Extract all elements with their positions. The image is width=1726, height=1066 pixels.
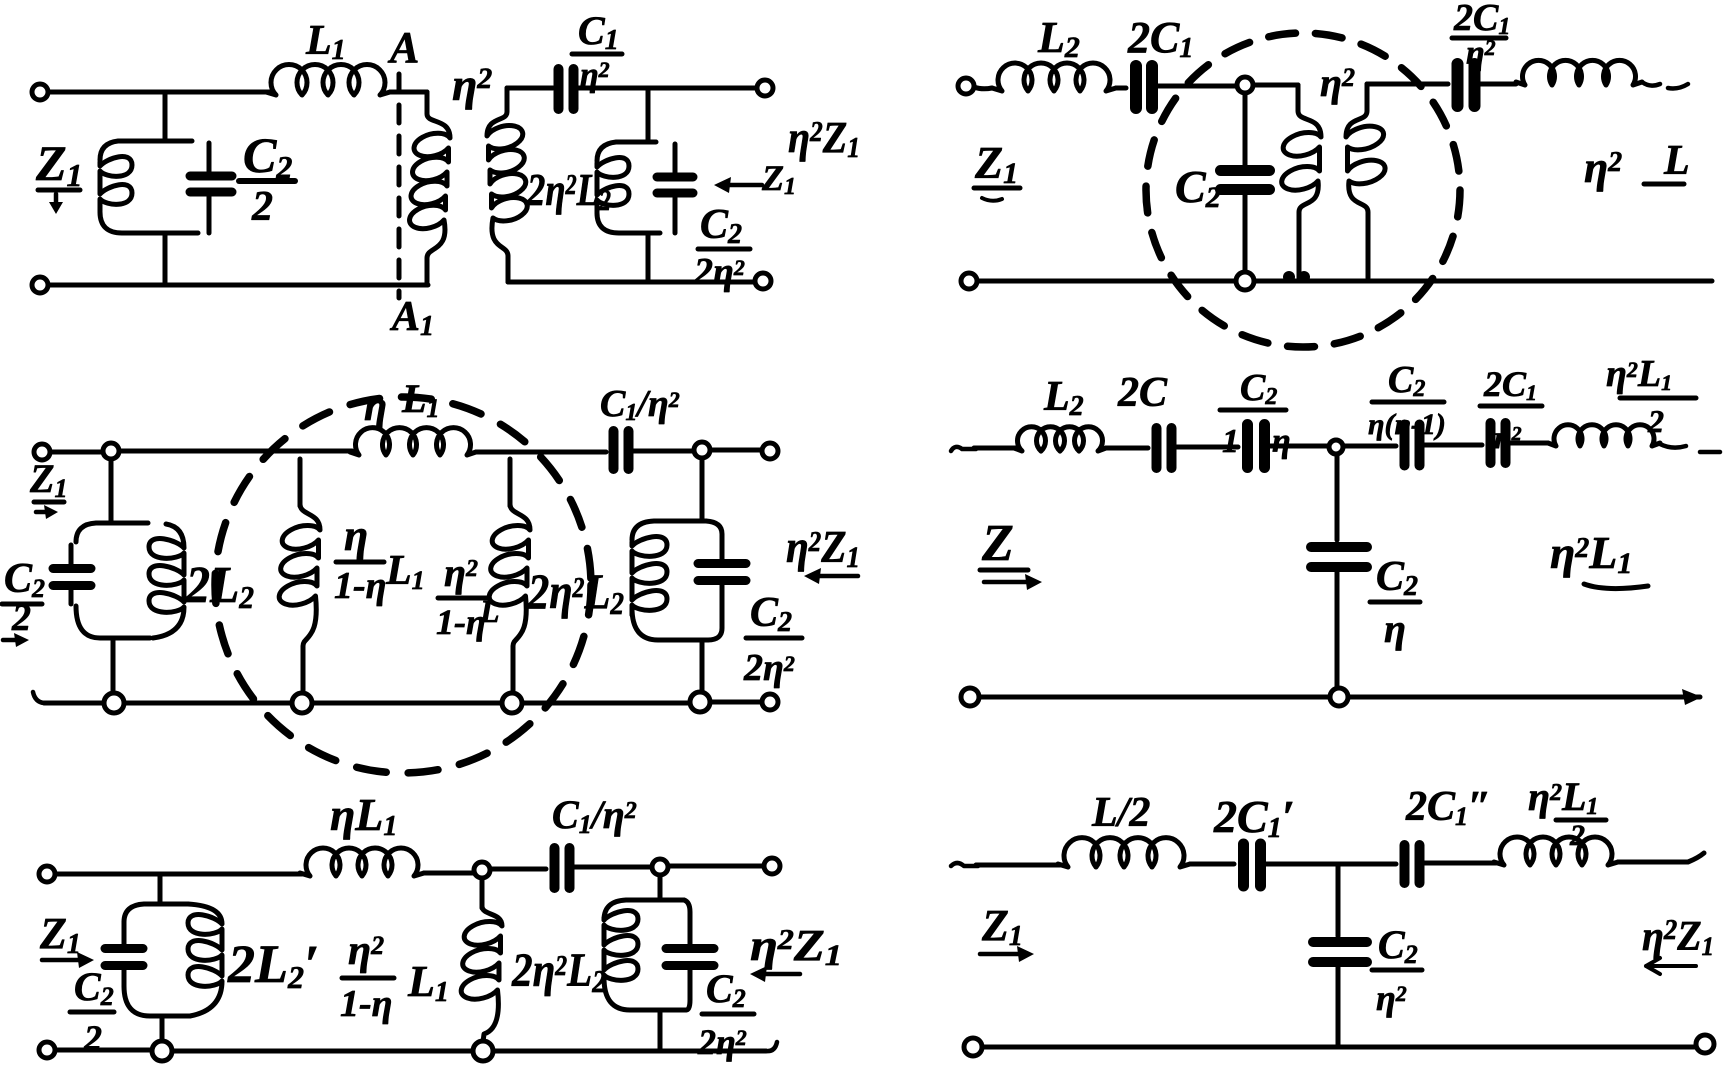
svg-text:η2: η2 xyxy=(348,928,384,974)
wire c1 cap2 branch top xyxy=(673,144,678,174)
wire c3 cap branch bottom xyxy=(708,584,722,640)
wire c4 L2 to 2C xyxy=(1106,446,1148,451)
svg-text:L/2: L/2 xyxy=(1091,790,1150,836)
wire c4 cap4 to coil xyxy=(1506,441,1548,446)
capacitor C2/2eta2 plates c3 xyxy=(698,564,746,581)
capacitor 2C1' series c6 xyxy=(1244,844,1261,886)
terminal c2 bottom left xyxy=(961,273,977,289)
wire c3 shunt stem L xyxy=(109,459,114,523)
wire c1 L1 to A xyxy=(390,90,427,95)
svg-text:L2: L2 xyxy=(1037,13,1080,64)
wire c1 bottom rail xyxy=(48,283,428,288)
svg-text:η2L1: η2L1 xyxy=(1528,774,1598,820)
parallel box c3-left outline xyxy=(76,523,150,638)
terminal c3 input top xyxy=(34,444,50,460)
svg-text:η2: η2 xyxy=(452,59,492,110)
wire c3 shunt stem R bottom xyxy=(700,640,705,694)
terminal c5 input bottom xyxy=(39,1042,55,1058)
node c3 input xyxy=(103,443,119,459)
wire c1 bottom rail secondary xyxy=(508,280,755,285)
wire c1 cap to out xyxy=(574,86,757,91)
parallel box c5-right outline xyxy=(604,900,686,1010)
capacitor C2/(1-eta) series c4 xyxy=(1248,425,1265,468)
svg-text:2η2L2: 2η2L2 xyxy=(526,164,611,217)
svg-text:C1/η2: C1/η2 xyxy=(600,383,680,426)
terminal c1 input top xyxy=(32,84,48,100)
wire c2 output hook xyxy=(1642,82,1688,89)
wire c5 coil to node xyxy=(424,871,474,876)
svg-text:C2: C2 xyxy=(74,964,114,1011)
svg-text:η2L1: η2L1 xyxy=(1550,527,1632,580)
wire c1 secondary top xyxy=(507,86,553,91)
svg-text:2: 2 xyxy=(1647,403,1664,439)
wire c5 shunt stem L xyxy=(158,874,163,904)
svg-text:C2: C2 xyxy=(706,966,746,1013)
svg-text:C2: C2 xyxy=(1388,359,1425,402)
svg-text:2η2L2: 2η2L2 xyxy=(527,563,624,621)
terminal c5 output top xyxy=(764,858,780,874)
wire c5 top rail left xyxy=(55,872,302,877)
wire c2 cap to coil xyxy=(1476,82,1516,87)
capacitor 2C series c4 xyxy=(1157,428,1172,468)
svg-text:C2: C2 xyxy=(243,127,292,185)
wire c6 cap2 to coil xyxy=(1420,861,1496,866)
svg-text:2C1: 2C1 xyxy=(1483,364,1537,405)
svg-text:1-η: 1-η xyxy=(436,602,486,642)
svg-text:2η2L2: 2η2L2 xyxy=(511,944,606,999)
wire c3 input xyxy=(50,450,103,455)
wire c4 shunt stem top xyxy=(1335,454,1340,540)
svg-text:Z1: Z1 xyxy=(974,137,1018,190)
svg-text:L: L xyxy=(1663,138,1690,184)
wire c1 shunt2 stem top xyxy=(646,88,651,142)
svg-text:2η2: 2η2 xyxy=(743,647,795,689)
node c3 bottom 1 xyxy=(104,693,124,713)
capacitor 2C1/eta2 series c4 xyxy=(1491,423,1506,463)
svg-text:η: η xyxy=(344,511,368,560)
wire c2 cap to node xyxy=(1154,84,1237,89)
svg-text:A: A xyxy=(387,23,419,72)
terminal c4 bottom left xyxy=(961,688,979,706)
inductor eta2/(1-eta)L1 c3 xyxy=(489,504,530,694)
svg-text:η2: η2 xyxy=(1466,35,1496,72)
wire c4 node to cap3 xyxy=(1343,444,1396,449)
inductor etaL1 c5 xyxy=(300,848,424,876)
svg-text:2: 2 xyxy=(251,184,273,230)
inductor 2L2 c3box xyxy=(149,524,184,638)
node c3 bottom right xyxy=(690,692,710,712)
wire c4 input hook xyxy=(951,447,976,451)
svg-text:1-η: 1-η xyxy=(340,983,393,1025)
svg-text:η2: η2 xyxy=(1376,978,1407,1018)
transformer c1 secondary xyxy=(487,88,527,282)
wire c2 shunt stem bottom xyxy=(1243,192,1248,273)
svg-text:η2: η2 xyxy=(1494,419,1522,455)
wire c6 input xyxy=(976,863,1060,868)
junction dot c2 b xyxy=(1298,271,1310,283)
svg-text:L1: L1 xyxy=(407,957,449,1008)
wire c2 node to transformer xyxy=(1253,83,1298,88)
dashed circle c2 xyxy=(1146,33,1460,347)
parallel box c5-left outline xyxy=(124,904,190,1016)
svg-text:A1: A1 xyxy=(389,294,434,342)
svg-text:1: 1 xyxy=(1222,423,1239,460)
svg-text:η: η xyxy=(364,384,387,430)
wire c2 bottom rail xyxy=(977,279,1712,284)
svg-text:L1: L1 xyxy=(401,376,439,423)
wire c5 bottom right hook xyxy=(766,1042,777,1051)
svg-text:2C1: 2C1 xyxy=(1127,13,1193,64)
parallel box c1-left outline xyxy=(100,141,198,233)
inductor L2 c2 xyxy=(992,63,1116,91)
node c5 bottom 1 xyxy=(152,1041,172,1061)
node c2 top xyxy=(1237,77,1253,93)
svg-text:2: 2 xyxy=(1569,819,1585,852)
wire c3 shunt coil2 stem xyxy=(508,459,513,506)
svg-text:2L2: 2L2 xyxy=(185,557,254,615)
svg-text:2: 2 xyxy=(11,597,31,639)
parallel box c1-right outline xyxy=(597,142,660,233)
wire c2 L2 to cap xyxy=(1116,86,1126,91)
svg-text:2C: 2C xyxy=(1117,370,1168,416)
svg-text:2L2′: 2L2′ xyxy=(227,934,319,995)
svg-text:2C1″: 2C1″ xyxy=(1405,784,1491,831)
wire c6 shunt stem top xyxy=(1336,865,1341,936)
capacitor C2/2eta2 plates xyxy=(657,177,693,193)
capacitor L2/eta(eta-1) series c4 xyxy=(1405,425,1420,466)
wire c1 cap2 branch bottom xyxy=(673,196,678,233)
node c4 bottom xyxy=(1330,688,1348,706)
svg-text:L: L xyxy=(479,593,500,629)
terminal c1 output bottom xyxy=(755,273,771,289)
svg-text:C2: C2 xyxy=(1240,367,1277,410)
wire c5 shunt stem L bottom xyxy=(160,1016,165,1041)
wire c5 bottom rail xyxy=(55,1050,766,1051)
capacitor C2/2 plates c5box xyxy=(105,949,143,966)
svg-text:L2: L2 xyxy=(1043,374,1084,422)
svg-text:η2: η2 xyxy=(1320,60,1355,105)
node c3 shunt1 bottom xyxy=(292,693,312,713)
svg-text:Z1: Z1 xyxy=(29,456,67,503)
wire c3 coil to cap xyxy=(476,450,606,455)
wire c3 bottom rail xyxy=(44,702,762,703)
svg-text:η2: η2 xyxy=(444,550,478,595)
wire c5 shunt coil stem xyxy=(480,878,485,908)
inductor eta2L1/2 c6 xyxy=(1494,837,1618,865)
node c5 right top xyxy=(652,859,668,875)
wire c1 shunt stem top xyxy=(163,92,168,141)
inductor eta/(1-eta)L1 c3 xyxy=(279,504,320,694)
wire c6 coil to cap xyxy=(1190,862,1234,867)
wire c5 node2 to terminal xyxy=(668,864,764,869)
wire c5 cap branch top xyxy=(684,900,690,946)
svg-text:η2Z1: η2Z1 xyxy=(1642,914,1714,961)
terminal c1 input bottom xyxy=(32,277,48,293)
wire c3 cap branch top xyxy=(706,521,722,560)
wire c5 shunt stem R bottom xyxy=(658,1010,663,1050)
svg-text:η2Z1: η2Z1 xyxy=(788,113,860,164)
svg-text:C2: C2 xyxy=(1175,161,1221,214)
wire c6 bottom rail xyxy=(982,1045,1696,1050)
svg-text:η2L1: η2L1 xyxy=(1606,353,1672,395)
svg-text:C2: C2 xyxy=(1378,922,1418,969)
wire c4 input xyxy=(974,446,1016,451)
svg-text:C1/η2: C1/η2 xyxy=(552,792,637,839)
node A dashed line xyxy=(397,74,402,298)
transformer c2 right winding xyxy=(1346,84,1385,278)
wire c3 bottom left hook xyxy=(33,692,44,703)
parallel box c3-right outline xyxy=(632,521,708,640)
svg-text:2C1′: 2C1′ xyxy=(1213,791,1295,844)
capacitor C2/2 plates xyxy=(190,176,232,192)
wire c1 shunt stem bottom xyxy=(163,233,168,285)
inductor 2eta2L2 c3box xyxy=(632,537,667,615)
terminal c3 output top xyxy=(762,443,778,459)
svg-text:η: η xyxy=(1272,423,1291,460)
svg-text:2η2: 2η2 xyxy=(697,1022,747,1062)
inductor (c1 left box, 2 loops) xyxy=(100,157,132,211)
wire c2 input xyxy=(974,87,992,89)
terminal c2 input xyxy=(958,78,974,94)
inductor L2 c4 xyxy=(1014,427,1106,451)
svg-text:C2: C2 xyxy=(1376,554,1418,602)
terminal c1 output top xyxy=(757,80,773,96)
inductor 2eta2L2 shunt c5 xyxy=(461,906,502,1042)
wire c6 output xyxy=(1618,853,1704,862)
inductor L/2 c6 xyxy=(1058,838,1190,867)
svg-text:2η2: 2η2 xyxy=(693,251,745,293)
wire c5 cap branch bottom xyxy=(686,968,690,1010)
svg-text:Z1: Z1 xyxy=(981,901,1023,952)
wire c6 shunt stem bottom xyxy=(1336,964,1341,1047)
wire c4 bottom rail xyxy=(979,695,1700,700)
svg-text:Z1: Z1 xyxy=(761,158,796,200)
svg-text:L1: L1 xyxy=(385,548,425,595)
capacitor C1/eta2 series xyxy=(559,69,574,109)
svg-text:Z1: Z1 xyxy=(35,135,83,193)
svg-text:η2: η2 xyxy=(1584,143,1622,192)
svg-text:C2: C2 xyxy=(700,202,742,250)
wire c1 cap branch top xyxy=(207,143,212,173)
capacitor C2/eta2 shunt plates c6 xyxy=(1313,942,1367,962)
wire c5 cap to node2 xyxy=(570,865,652,870)
capacitor C2/2eta2 plates c5 xyxy=(666,949,714,966)
wire c1 top rail xyxy=(48,90,270,95)
terminal c5 input top xyxy=(39,866,55,882)
capacitor 2C1 series c2 xyxy=(1136,66,1152,108)
dashed circle c3 xyxy=(215,397,591,773)
capacitor C1/eta2 series c5 xyxy=(555,848,570,888)
wire c4 shunt stem bottom xyxy=(1335,570,1340,690)
inductor (c1 right box, 2 loops) xyxy=(597,158,629,212)
wire c3 shunt stem R xyxy=(700,458,705,521)
wire c4 output dash xyxy=(1660,444,1720,452)
wire c2 shunt stem top xyxy=(1243,93,1248,166)
node c5 mid top xyxy=(474,862,490,878)
svg-text:η(η-1): η(η-1) xyxy=(1368,408,1446,441)
node c4 T xyxy=(1329,440,1343,454)
svg-text:C2: C2 xyxy=(4,556,45,603)
wire c6 cap to T xyxy=(1262,862,1396,867)
svg-text:C2: C2 xyxy=(750,590,792,638)
wire c2 transformer to cap xyxy=(1367,82,1448,87)
svg-text:η: η xyxy=(1384,606,1406,651)
wire c4 bottom right arrow xyxy=(1682,689,1702,705)
transformer c2 left winding xyxy=(1282,85,1321,278)
wire c5 node to cap xyxy=(490,867,546,872)
svg-text:C1: C1 xyxy=(578,8,619,56)
wire c5 shunt stem R xyxy=(658,875,663,900)
wire c4 2C to cap2 xyxy=(1172,445,1238,450)
node c3 shunt2 bottom xyxy=(502,693,522,713)
node c5 bottom mid xyxy=(473,1041,493,1061)
inductor L1 xyxy=(266,65,390,95)
wire c4 cap to node xyxy=(1266,444,1328,449)
svg-text:Z: Z xyxy=(981,515,1014,572)
capacitor 2C1'' series c6 xyxy=(1405,845,1420,883)
inductor eta2L1/2 c4 xyxy=(1548,425,1660,446)
svg-text:ηL1: ηL1 xyxy=(330,789,397,842)
capacitor C1/eta2 series c3 xyxy=(614,431,629,469)
wire c3 cap to node xyxy=(630,449,694,454)
wire c6 input hook xyxy=(951,863,978,866)
transformer c1 primary xyxy=(410,92,450,283)
svg-text:Z1: Z1 xyxy=(39,909,81,960)
capacitor C2/2 plates c3box xyxy=(53,569,91,586)
svg-text:L1: L1 xyxy=(305,18,346,66)
capacitor 2C1/eta2 series c2 xyxy=(1458,64,1475,106)
inductor 2L2' c5box xyxy=(188,904,222,1016)
terminal c3 output bottom xyxy=(762,694,778,710)
svg-text:η2Z1: η2Z1 xyxy=(750,921,842,972)
inductor eta2L c2 xyxy=(1516,60,1642,85)
capacitor C2 shunt plates xyxy=(1221,171,1270,190)
wire c1 shunt2 stem bottom xyxy=(646,233,651,282)
svg-text:1-η: 1-η xyxy=(334,565,387,607)
inductor (c5 right box) xyxy=(604,911,638,981)
terminal c6 bottom right xyxy=(1696,1035,1714,1053)
wire c3 top rail left xyxy=(119,449,352,454)
wire c1 cap branch bottom xyxy=(207,195,212,233)
junction dot c2 a xyxy=(1283,271,1295,283)
wire c3 shunt stem L bottom xyxy=(111,638,116,694)
wire c3 shunt coil1 stem xyxy=(298,459,303,506)
capacitor C2/eta shunt plates c4 xyxy=(1311,547,1367,567)
wire c4 cap3 to cap4 xyxy=(1420,443,1482,448)
inductor etaL1 c3 xyxy=(350,428,476,455)
wire c3 node to terminal xyxy=(710,448,762,453)
svg-text:η2Z1: η2Z1 xyxy=(786,521,860,574)
terminal c6 bottom left xyxy=(964,1038,982,1056)
node c2 bottom xyxy=(1236,272,1254,290)
node c3 output top xyxy=(694,442,710,458)
